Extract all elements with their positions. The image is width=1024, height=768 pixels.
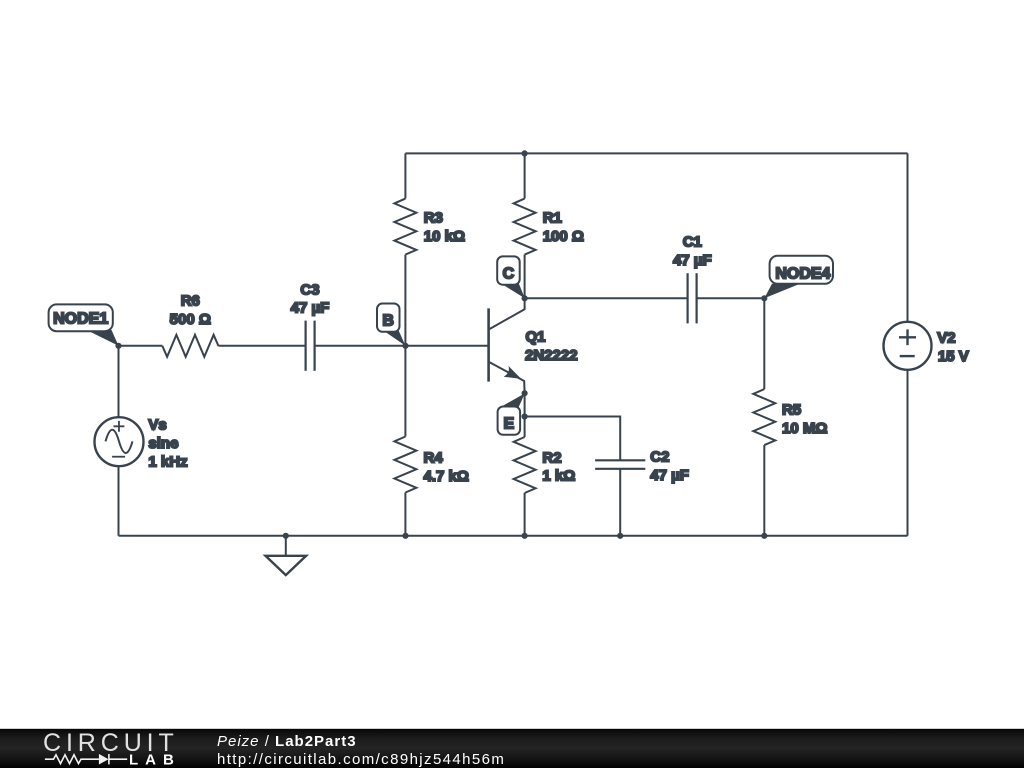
svg-text:Q1: Q1 (526, 329, 546, 346)
wire node B to R4 (404, 346, 406, 437)
wire R2 to bottom rail (524, 493, 526, 536)
footer bar (0, 729, 1024, 768)
svg-text:R4: R4 (424, 450, 444, 467)
wire C2 to bottom rail (619, 469, 621, 536)
ground (266, 536, 307, 575)
wire R1 to collector node (524, 255, 526, 299)
resistor R1 (514, 199, 584, 255)
wire right rail lower (V2 to bottom rail) (907, 370, 909, 536)
wire emitter branch to C2 (525, 417, 621, 461)
wire collector node to C1 (525, 297, 688, 299)
svg-text:NODE4: NODE4 (775, 265, 830, 282)
svg-text:47 µF: 47 µF (650, 467, 689, 484)
wire R3 to node B (404, 255, 406, 346)
wire top rail to R1 (524, 153, 526, 198)
wire R5 to bottom rail (763, 445, 765, 536)
svg-text:15 V: 15 V (938, 348, 969, 365)
wire R4 to bottom rail (404, 493, 406, 536)
svg-text:Vs: Vs (148, 416, 166, 433)
footer title (217, 733, 505, 768)
resistor R5 (753, 389, 827, 445)
node NODE1 (49, 304, 119, 345)
svg-text:10 MΩ: 10 MΩ (782, 420, 827, 437)
wire Q1 emitter to branch (524, 393, 526, 437)
svg-text:47 µF: 47 µF (673, 252, 712, 269)
svg-text:100 Ω: 100 Ω (543, 228, 584, 245)
svg-text:Peize / Lab2Part3: Peize / Lab2Part3 (217, 733, 357, 750)
svg-text:4.7 kΩ: 4.7 kΩ (424, 468, 469, 485)
svg-text:LAB: LAB (129, 751, 181, 768)
svg-text:C2: C2 (650, 449, 669, 466)
wire NODE1 to R6 (119, 345, 163, 347)
voltage source V2 (884, 322, 969, 370)
node NODE4 (764, 256, 833, 298)
node B (377, 304, 406, 346)
transistor Q1 (489, 298, 578, 393)
wire node B to Q1 base (406, 345, 489, 347)
node E (498, 393, 525, 434)
resistor R3 (394, 199, 465, 255)
capacitor C2 (595, 449, 689, 485)
wire right rail upper (top rail to V2) (907, 153, 909, 321)
capacitor C1 (673, 234, 712, 324)
svg-text:2N2222: 2N2222 (525, 347, 578, 364)
wire Vs to bottom rail (118, 466, 120, 536)
svg-text:R5: R5 (782, 401, 801, 418)
svg-text:C: C (503, 266, 515, 283)
svg-text:http://circuitlab.com/c89hjz54: http://circuitlab.com/c89hjz544h56m (217, 751, 505, 768)
wire C1 to NODE4 (697, 297, 765, 299)
svg-text:V2: V2 (937, 329, 955, 346)
svg-text:E: E (503, 416, 514, 433)
wire R6 to C3 (218, 345, 305, 347)
capacitor C3 (291, 282, 330, 371)
wire bottom rail (119, 535, 908, 537)
svg-text:NODE1: NODE1 (53, 310, 108, 327)
svg-text:C1: C1 (683, 234, 702, 251)
node C (497, 256, 525, 298)
CircuitLab logo (43, 729, 181, 768)
resistor R6 (162, 292, 218, 356)
svg-text:10 kΩ: 10 kΩ (424, 228, 465, 245)
svg-text:R3: R3 (424, 210, 443, 227)
svg-text:R1: R1 (543, 210, 562, 227)
wire NODE1 to Vs (118, 346, 120, 417)
wire NODE4 to R5 (763, 298, 765, 389)
svg-text:R6: R6 (181, 292, 200, 309)
svg-text:C3: C3 (300, 282, 319, 299)
resistor R4 (394, 437, 468, 493)
svg-text:500 Ω: 500 Ω (170, 311, 211, 328)
svg-text:1 kΩ: 1 kΩ (542, 467, 575, 484)
wire top rail to R3 (404, 153, 406, 198)
svg-text:sine: sine (148, 435, 178, 452)
resistor R2 (514, 437, 576, 493)
svg-text:1 kHz: 1 kHz (148, 454, 187, 471)
wire top rail (405, 152, 907, 154)
svg-text:47 µF: 47 µF (291, 299, 330, 316)
wire C3 to node B (315, 345, 406, 347)
svg-text:B: B (382, 313, 394, 330)
voltage source Vs (95, 416, 188, 470)
svg-text:R2: R2 (542, 450, 561, 467)
